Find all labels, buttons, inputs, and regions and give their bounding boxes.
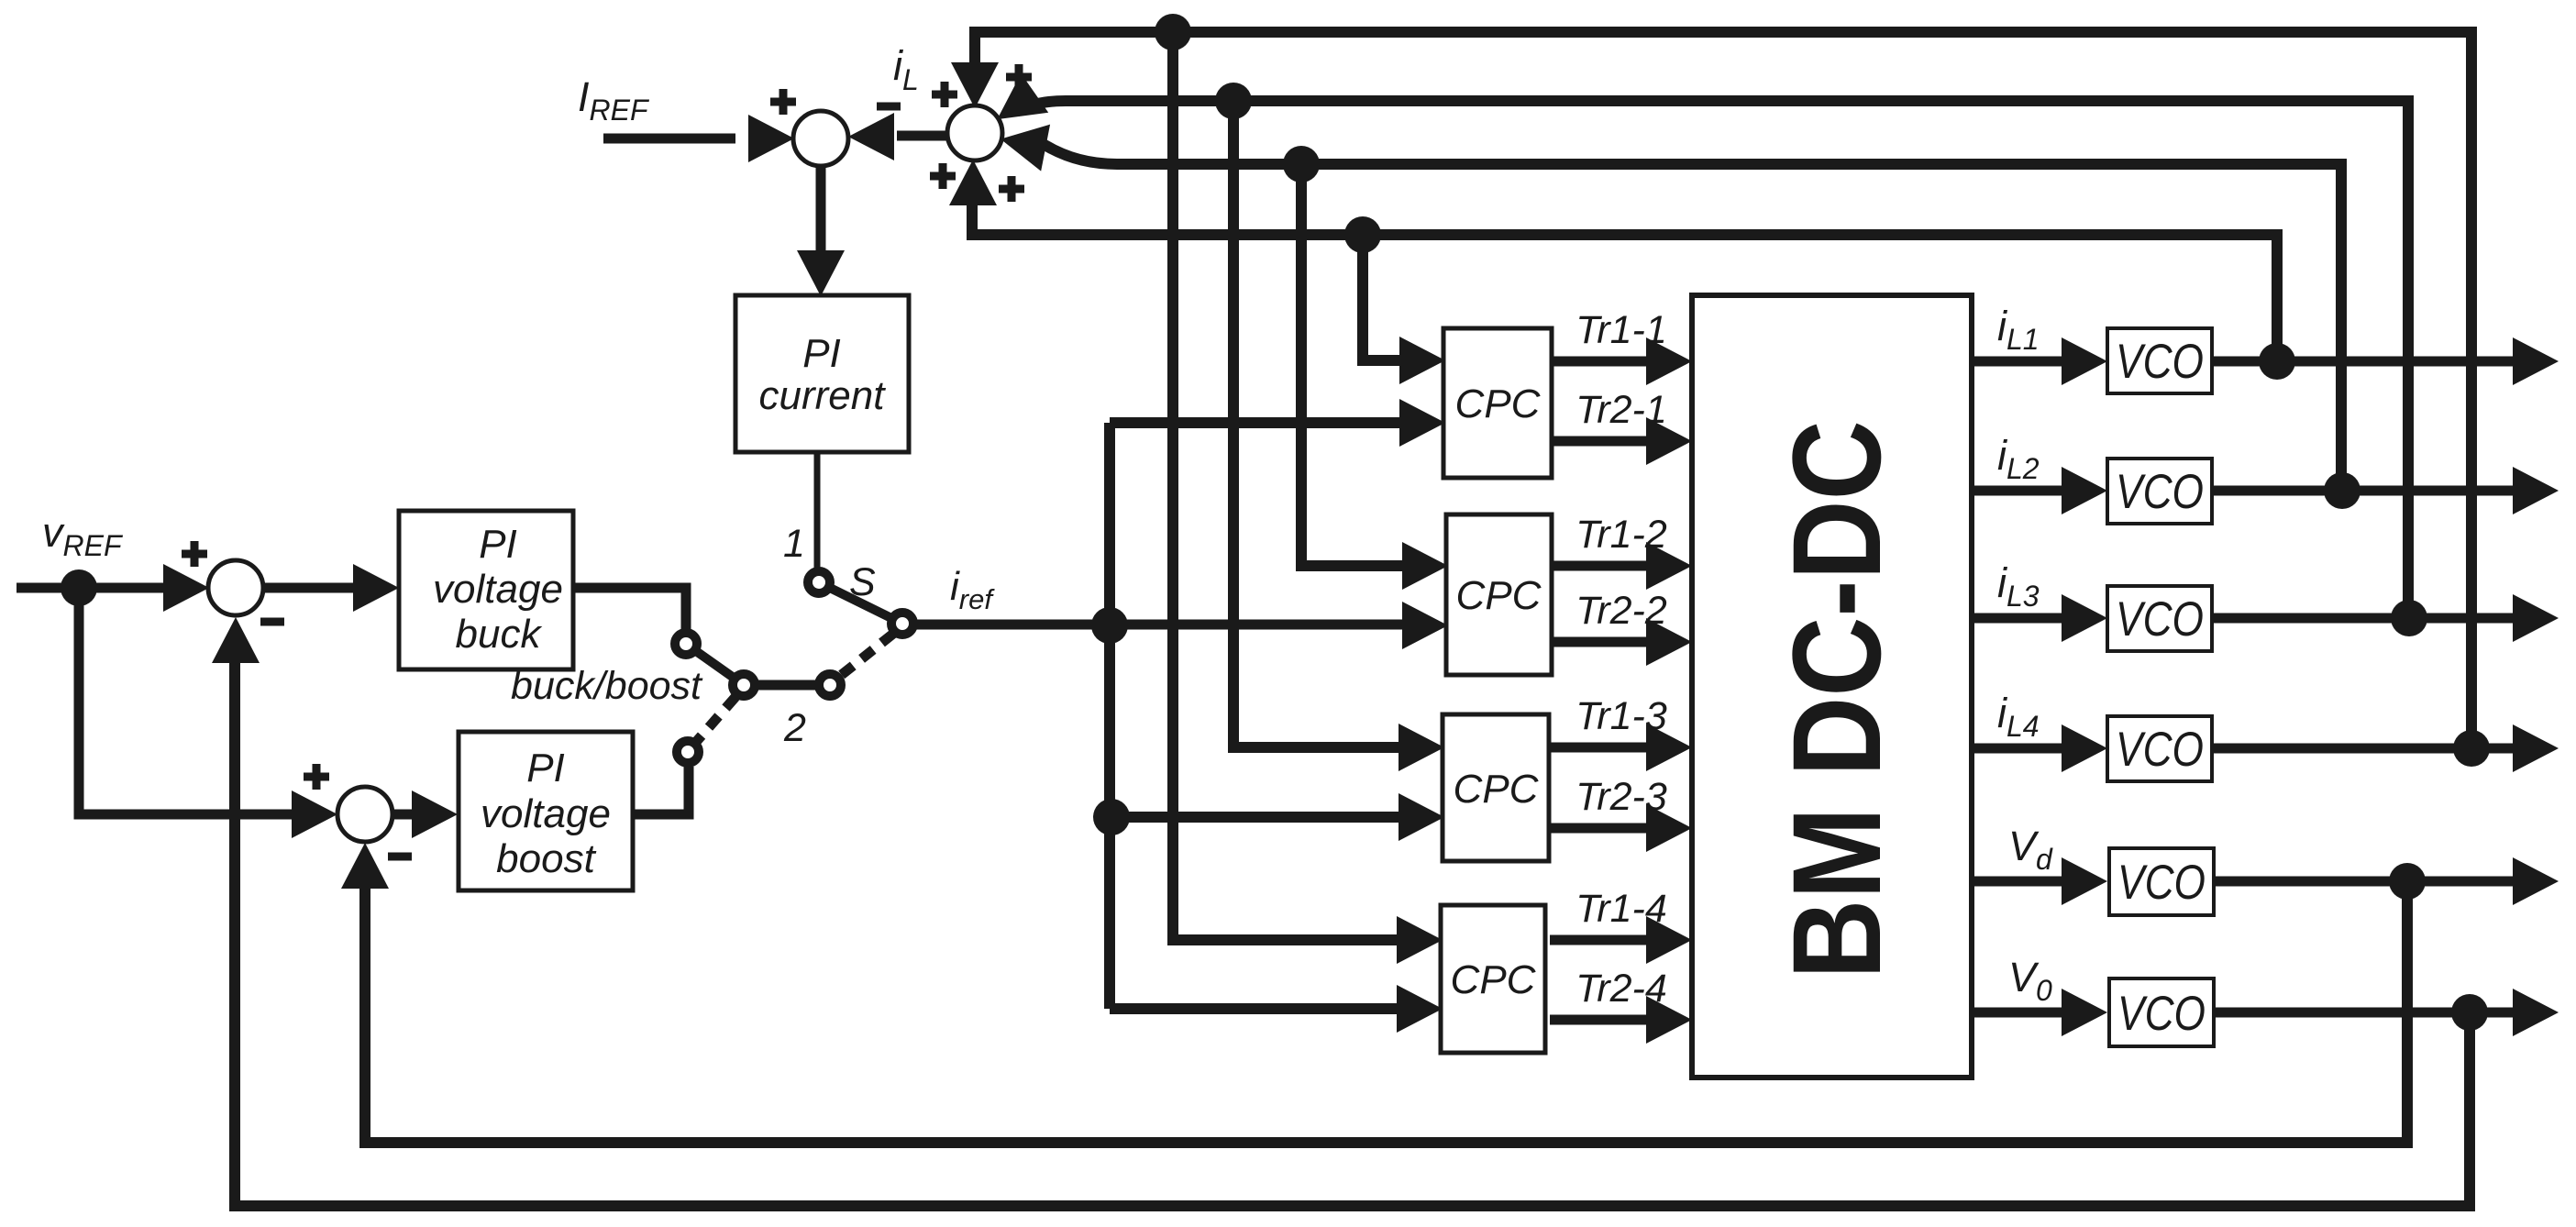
switch S arm (closed to position 1) [830,588,891,618]
wire feedback line iL1 (top line 4) [972,202,2277,358]
switch S arm dashed (open to position 2) [839,634,893,677]
svg-text:VCO: VCO [2116,465,2204,519]
svg-text:1: 1 [783,522,805,566]
arrowhead into PI voltage boost [412,790,458,838]
plus sign at S4 input [304,764,329,790]
node junction V0 output / feedback [2451,994,2488,1031]
arrowhead Vd into VCO [2062,857,2107,905]
node junction line3 / CPC2 branch [1283,146,1320,182]
svg-text:CPC: CPC [1454,767,1540,812]
wire PI current to switch S contact 1 [814,452,821,568]
svg-text:CPC: CPC [1455,381,1542,426]
wire iref from switch S to CPC2 [916,620,1433,630]
block PI current [735,295,909,452]
wire iref branch to CPC1 lower input [1110,417,1431,428]
wire iref branch to CPC4 lower input [1110,1003,1428,1014]
wire feedback line iL3 (top line 2) [1016,101,2408,614]
wire feedback line iL4 (top line 1) [975,32,2471,745]
wire BM output Vd to VCO [1972,877,2064,887]
wire BM output V0 to VCO [1972,1008,2064,1018]
switch S contact 1 [808,571,830,593]
svg-text:Tr1-4: Tr1-4 [1575,887,1667,931]
wire Tr1-4 CPC output to BM DC-DC [1550,935,1650,945]
plus sign S2 bottom-left [930,163,956,189]
arrowhead Tr1-4 into BM DC-DC [1646,916,1692,964]
arrowhead iL3 into VCO [2062,594,2107,642]
arrowhead vREF into summing S3 [163,564,209,612]
arrowhead into PI voltage buck [353,564,399,612]
switch buck/boost arm (closed to buck) [696,651,734,678]
minus sign at S3 feedback input [260,618,284,626]
wire iL3 feedback to CPC3 upper input [1233,101,1430,747]
wire iref branch to CPC3 lower input [1111,812,1430,823]
wire iL2 feedback to CPC2 upper input [1301,164,1433,566]
wire feedback line iL2 (top line 3) [1042,143,2341,487]
wire Tr1-1 CPC output to BM DC-DC [1550,357,1650,367]
svg-text:2: 2 [783,706,806,750]
svg-text:BM DC-DC: BM DC-DC [1767,420,1907,978]
svg-text:buck/boost: buck/boost [511,664,703,708]
wire Tr1-2 CPC output to BM DC-DC [1550,561,1650,571]
wire VCO output iL2 to right edge [2212,486,2517,496]
plus sign at S1 input [770,89,796,115]
svg-text:VCO: VCO [2116,335,2204,389]
svg-text:S: S [849,560,876,604]
wire vREF input [17,583,188,593]
svg-text:Tr2-3: Tr2-3 [1575,775,1667,819]
wire buck/boost pivot to contact 2 of S [757,680,816,691]
summing junction S4 (boost voltage error) [337,787,392,842]
wire VCO output V0 to right edge [2212,1008,2517,1018]
arrowhead into CPC2 upper input [1402,542,1448,590]
arrowhead into CPC1 lower input [1399,399,1445,447]
block VCO 3 [2107,586,2212,651]
wire BM output iL4 to VCO [1972,744,2064,754]
svg-text:VCO: VCO [2117,856,2206,910]
wire Tr2-3 CPC output to BM DC-DC [1550,824,1650,834]
block PI voltage buck [399,511,573,669]
node junction iref / vertical [1091,607,1128,644]
node junction iL4 output / feedback [2453,730,2490,767]
svg-text:Tr2-4: Tr2-4 [1575,967,1667,1011]
arrowhead into CPC3 upper input [1399,724,1444,771]
block VCO 6 [2109,978,2214,1046]
svg-text:Tr2-2: Tr2-2 [1575,589,1667,633]
wire vREF branch down to summing S4 [79,588,319,814]
wire S2 output to S1 [897,131,947,141]
arrowhead iL1 into VCO [2062,337,2107,385]
block VCO 2 [2107,459,2212,524]
arrowhead output Vd [2513,857,2559,905]
wire PI buck output to switch contact [572,588,686,629]
svg-text:PI: PI [802,331,841,376]
block BM DC-DC converter [1692,295,1972,1078]
wire BM output iL1 to VCO [1972,357,2064,367]
arrowhead Tr1-2 into BM DC-DC [1646,542,1692,590]
arrowhead into CPC1 upper input [1399,337,1445,384]
arrowhead Tr1-1 into BM DC-DC [1646,337,1692,385]
wire VCO output iL3 to right edge [2212,613,2517,624]
arrowhead V0 feedback into S3 bottom [212,617,260,663]
switch contact buck [675,633,697,655]
svg-text:current: current [759,373,887,418]
arrowhead iref into CPC2 lower input [1402,602,1448,649]
svg-text:VCO: VCO [2116,592,2204,647]
block CPC 2 [1446,514,1552,675]
arrowhead Tr2-4 into BM DC-DC [1646,996,1692,1044]
switch S pivot [891,613,913,635]
wire Tr2-1 CPC output to BM DC-DC [1550,437,1650,447]
svg-text:Tr1-1: Tr1-1 [1575,308,1667,352]
svg-text:voltage: voltage [481,791,611,836]
switch buck/boost pivot [733,674,755,696]
arrowhead output iL4 [2513,724,2559,772]
arrowhead Tr2-1 into BM DC-DC [1646,417,1692,465]
wire S3 to PI voltage buck [264,583,385,593]
arrowhead line3 into S2 right [996,116,1050,171]
svg-text:Tr2-1: Tr2-1 [1575,388,1667,432]
svg-text:CPC: CPC [1451,957,1537,1002]
svg-text:PI: PI [526,746,565,790]
arrowhead into CPC4 upper input [1397,916,1443,964]
arrowhead Vd feedback into S4 bottom [341,843,389,889]
svg-text:Tr1-3: Tr1-3 [1575,694,1667,738]
arrowhead iL sum into S1 [848,113,894,160]
svg-text:voltage: voltage [433,567,563,612]
wire iref distribution vertical [1104,423,1115,1009]
arrowhead output iL2 [2513,467,2559,514]
node junction iL3 output / feedback [2391,600,2427,636]
svg-text:CPC: CPC [1456,573,1542,618]
arrowhead Tr2-2 into BM DC-DC [1646,618,1692,666]
wire iL4 feedback to CPC4 upper input [1173,32,1428,940]
plus sign S2 top-left [932,82,957,107]
arrowhead iL2 into VCO [2062,467,2107,514]
arrowhead line4 into S2 bottom [949,160,997,205]
svg-text:buck: buck [456,612,543,657]
wire feedback V0 to S3 minus (bottom line B2) [235,642,2470,1206]
svg-text:PI: PI [479,522,517,567]
wire VCO output iL1 to right edge [2212,357,2517,367]
wire S1 to PI current [816,166,826,282]
svg-text:VCO: VCO [2116,723,2204,777]
arrowhead output iL1 [2513,337,2559,385]
block PI voltage boost [459,732,633,890]
node junction line2 / CPC3 branch [1215,83,1252,119]
arrowhead output V0 [2513,989,2559,1036]
svg-text:Tr1-2: Tr1-2 [1575,513,1667,557]
node junction iref vertical / CPC3 branch [1093,799,1130,835]
node junction Vd output / feedback [2389,863,2426,900]
svg-text:boost: boost [496,836,596,881]
node junction on vREF line [61,569,97,606]
wire iL1 feedback to CPC1 upper input [1363,235,1431,360]
node junction line4 / CPC1 branch [1344,216,1381,253]
plus sign at S3 input [182,541,207,567]
arrowhead iL4 into VCO [2062,724,2107,772]
arrowhead line2 into S2 upper-right [983,73,1048,138]
svg-text:VCO: VCO [2117,987,2206,1041]
wire VCO output Vd to right edge [2212,877,2517,887]
arrowhead Tr1-3 into BM DC-DC [1646,724,1692,771]
wire VCO output iL4 to right edge [2212,744,2517,754]
minus sign at S4 feedback input [388,853,412,861]
switch contact boost [677,741,699,763]
arrowhead into PI current [797,250,845,296]
wire PI boost output to switch contact [633,767,689,814]
wire IREF input [603,134,735,144]
block CPC 1 [1443,328,1552,478]
switch buck/boost arm dashed (open to boost) [696,697,735,742]
node junction line1 / CPC4 branch [1155,14,1191,50]
block VCO 1 [2107,328,2212,393]
arrowhead into CPC3 lower input [1399,793,1444,841]
switch S contact 2 [819,674,841,696]
node junction iL2 output / feedback [2324,472,2360,509]
plus sign S2 top-right [1006,64,1032,90]
arrowhead Tr2-3 into BM DC-DC [1646,804,1692,852]
arrowhead output iL3 [2513,594,2559,642]
arrowhead V0 into VCO [2062,989,2107,1036]
minus sign at S1 feedback input [877,103,901,111]
arrowhead vREF branch into summing S4 [292,790,337,838]
wire S4 to PI voltage boost [393,810,444,820]
arrowhead into CPC4 lower input [1397,985,1443,1033]
wire Tr2-4 CPC output to BM DC-DC [1550,1015,1650,1025]
block CPC 3 [1443,714,1549,861]
summing junction S2 (iL sum) [947,105,1002,160]
wire feedback Vd to S4 minus (bottom line B1) [365,862,2407,1143]
wire Tr1-3 CPC output to BM DC-DC [1550,743,1650,753]
block VCO 5 [2109,848,2214,915]
arrowhead IREF into summing S1 [748,115,794,162]
wire BM output iL3 to VCO [1972,613,2064,624]
summing junction S3 (buck voltage error) [208,560,263,615]
block VCO 4 [2107,716,2212,781]
summing junction S1 (current error) [793,111,848,166]
arrowhead line1 into S2 top [951,62,999,108]
plus sign S2 bottom-right [999,176,1024,202]
node junction iL1 output / feedback [2259,343,2295,380]
wire BM output iL2 to VCO [1972,486,2064,496]
wire Tr2-2 CPC output to BM DC-DC [1550,637,1650,647]
block CPC 4 [1441,905,1545,1053]
